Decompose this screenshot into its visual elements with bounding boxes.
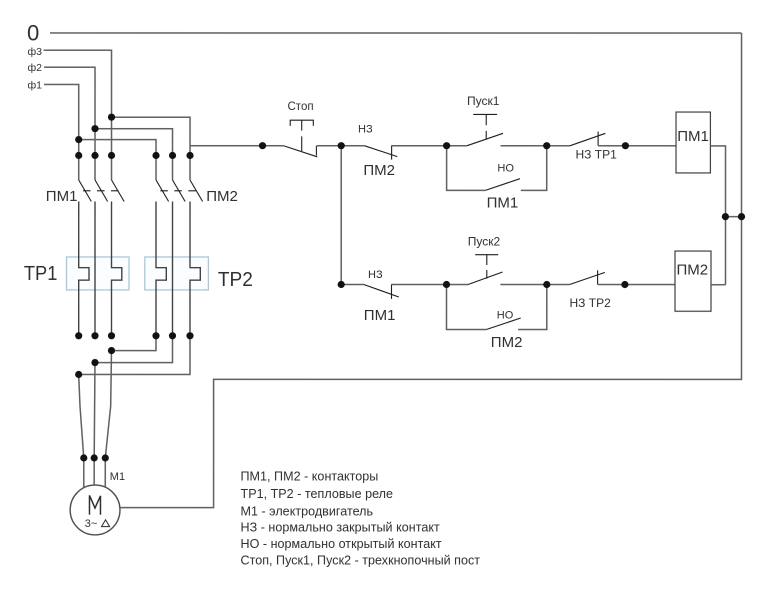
svg-text:НЗ: НЗ: [368, 269, 383, 281]
svg-text:Пуск2: Пуск2: [468, 235, 501, 249]
svg-text:ПМ2: ПМ2: [491, 334, 523, 351]
svg-text:ПМ1: ПМ1: [487, 194, 519, 211]
svg-text:НЗ - нормально закрытый контак: НЗ - нормально закрытый контакт: [240, 520, 439, 534]
svg-text:ПМ2: ПМ2: [677, 262, 709, 279]
svg-text:ф3: ф3: [28, 46, 43, 58]
svg-text:ПМ2: ПМ2: [206, 188, 238, 205]
svg-text:НО: НО: [497, 310, 514, 322]
svg-text:ф2: ф2: [28, 62, 43, 74]
svg-text:ТР2: ТР2: [218, 268, 253, 291]
svg-text:Стоп: Стоп: [288, 101, 314, 113]
svg-text:Пуск1: Пуск1: [467, 94, 500, 108]
svg-text:НЗ ТР1: НЗ ТР1: [576, 148, 618, 162]
svg-text:НО: НО: [497, 162, 514, 174]
svg-text:ТР1, ТР2 - тепловые реле: ТР1, ТР2 - тепловые реле: [240, 487, 393, 501]
svg-text:ПМ1: ПМ1: [46, 188, 78, 205]
svg-text:3~: 3~: [85, 518, 98, 530]
svg-text:ТР1: ТР1: [24, 262, 58, 285]
svg-text:НО - нормально открытый контак: НО - нормально открытый контакт: [240, 537, 441, 551]
svg-text:Стоп, Пуск1, Пуск2 - трехкнопо: Стоп, Пуск1, Пуск2 - трехкнопочный пост: [240, 554, 480, 568]
svg-text:ПМ1: ПМ1: [677, 128, 709, 145]
svg-text:ф1: ф1: [28, 79, 43, 91]
svg-text:0: 0: [27, 20, 39, 45]
svg-text:М1 - электродвигатель: М1 - электродвигатель: [240, 504, 373, 518]
svg-text:НЗ ТР2: НЗ ТР2: [569, 296, 611, 310]
svg-text:ПМ1, ПМ2 - контакторы: ПМ1, ПМ2 - контакторы: [240, 470, 378, 484]
svg-text:НЗ: НЗ: [358, 123, 373, 135]
svg-text:М1: М1: [110, 471, 125, 483]
svg-text:ПМ2: ПМ2: [363, 162, 395, 179]
svg-text:ПМ1: ПМ1: [364, 307, 396, 324]
